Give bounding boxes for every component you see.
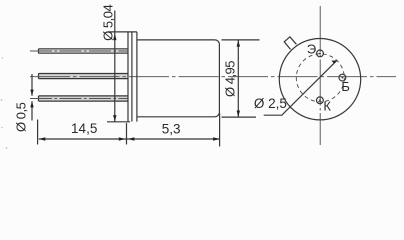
- svg-text:Б: Б: [341, 79, 350, 94]
- svg-text:5,3: 5,3: [162, 121, 181, 136]
- svg-text:К: К: [323, 99, 331, 114]
- svg-text:Ø 5,04: Ø 5,04: [100, 5, 115, 41]
- svg-text:Э: Э: [307, 42, 316, 57]
- svg-text:Ø 2,5: Ø 2,5: [254, 96, 287, 111]
- svg-text:14,5: 14,5: [71, 121, 97, 136]
- svg-text:Ø 0,5: Ø 0,5: [13, 102, 28, 132]
- svg-text:Ø 4,95: Ø 4,95: [222, 61, 237, 97]
